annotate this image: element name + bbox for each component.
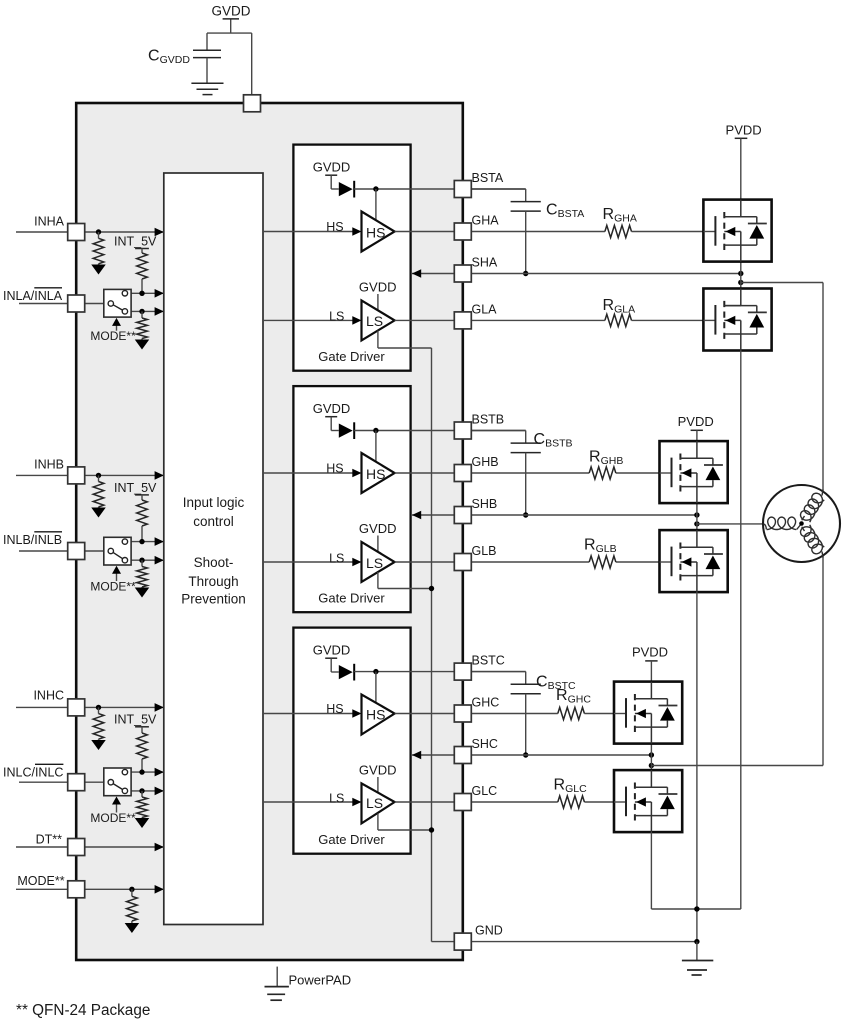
resistor RGLB (589, 556, 616, 568)
pin INLB (68, 543, 85, 560)
pin SHA (454, 265, 471, 282)
node INT_5V (A) (135, 248, 149, 250)
svg-text:HS: HS (366, 466, 385, 482)
svg-text:INLC/INLC: INLC/INLC (3, 766, 63, 780)
svg-text:CBSTA: CBSTA (546, 202, 584, 221)
capacitor CBSTC (525, 672, 527, 685)
wire INLC input stub (19, 781, 68, 783)
wire GLA output (395, 319, 605, 321)
node motor branch B (694, 521, 699, 526)
svg-text:INHB: INHB (34, 458, 64, 472)
pin BSTA (454, 181, 471, 198)
svg-text:Gate Driver: Gate Driver (318, 591, 385, 606)
node BSTA junction (373, 186, 378, 191)
wire SHB to half-bridge (466, 514, 697, 516)
wire BSTC (354, 671, 526, 673)
node SHC cap junction (523, 752, 528, 757)
svg-text:PowerPAD: PowerPAD (289, 973, 352, 988)
svg-text:CGVDD: CGVDD (148, 48, 190, 67)
pin INLC (68, 774, 85, 791)
svg-text:MODE**: MODE** (90, 329, 136, 343)
svg-text:BSTA: BSTA (472, 171, 504, 185)
gate driver block C (293, 628, 410, 854)
svg-text:MODE**: MODE** (17, 874, 64, 888)
pin INHC (68, 699, 85, 716)
svg-text:HS: HS (326, 702, 343, 716)
svg-text:** QFN-24 Package: ** QFN-24 Package (16, 1002, 150, 1019)
pin BSTC (454, 663, 471, 680)
mode mux switch B (104, 537, 131, 565)
svg-text:INT_5V: INT_5V (114, 713, 157, 727)
op-amp buffer HS A (362, 212, 395, 252)
gate driver block A (293, 145, 410, 371)
node BSTB junction (373, 428, 378, 433)
svg-text:Gate Driver: Gate Driver (318, 349, 385, 364)
node LS return B junction (429, 586, 434, 591)
wire LS input A (263, 319, 353, 321)
resistor RGHB (589, 467, 616, 479)
svg-text:BSTB: BSTB (472, 413, 505, 427)
node SHA midpoint (738, 271, 743, 276)
wire INLB pin to mux (85, 550, 104, 552)
node INHC pulldown junction (96, 705, 101, 710)
svg-text:SHC: SHC (472, 737, 498, 751)
wire LS return bus to GND (431, 348, 433, 942)
wire BSTA (354, 188, 526, 190)
diode bootstrap DC (339, 665, 353, 679)
node motor branch A (738, 280, 743, 285)
wire GHC (584, 713, 626, 715)
gate driver block B (293, 386, 410, 612)
wire GHA output (395, 231, 605, 233)
node SHB midpoint (694, 512, 699, 517)
resistor RGHC (558, 707, 585, 719)
pin GLA (454, 312, 471, 329)
wire mux C top output (128, 771, 164, 773)
svg-text:HS: HS (326, 220, 343, 234)
pin GVDD (244, 95, 261, 112)
node GND junction (694, 939, 699, 944)
wire INHB pin to logic (85, 474, 164, 476)
wire GHA (632, 231, 716, 233)
node INT_5V (B) (135, 494, 149, 496)
svg-text:HS: HS (326, 462, 343, 476)
wire mux B bottom output (128, 559, 164, 561)
svg-text:PVDD: PVDD (632, 645, 668, 660)
motor winding C (lower right) (801, 525, 825, 554)
node MODE pulldown junction (129, 887, 134, 892)
wire GLA (632, 319, 716, 321)
capacitor CBSTB (525, 431, 527, 444)
transistor Q5 (power MOSFET) (614, 682, 682, 744)
resistor pulldown mux A (141, 311, 143, 318)
svg-text:INLA/INLA: INLA/INLA (3, 289, 63, 303)
svg-text:MODE**: MODE** (90, 811, 136, 825)
pin GHC (454, 705, 471, 722)
wire LS return A (377, 331, 379, 349)
wire phase B to motor (697, 523, 766, 525)
wire INLA input stub (19, 303, 68, 305)
wire MODE pin to logic (85, 888, 164, 890)
op-amp buffer LS A (362, 300, 395, 340)
svg-text:MODE**: MODE** (90, 580, 136, 594)
svg-text:Through: Through (188, 574, 238, 589)
wire SHB sense (412, 514, 454, 516)
diode bootstrap DA (339, 182, 353, 196)
svg-text:INT_5V: INT_5V (114, 481, 157, 495)
ground (system) (682, 960, 713, 962)
wire mux C bottom output (128, 790, 164, 792)
pin GND (454, 933, 471, 950)
wire GHB output (395, 472, 590, 474)
pin GLB (454, 554, 471, 571)
svg-text:LS: LS (329, 310, 344, 324)
resistor INT_5V pullup A (141, 249, 143, 254)
svg-text:CBSTB: CBSTB (534, 431, 573, 450)
wire HS input A (263, 231, 353, 233)
node GVDD (top supply) (230, 19, 232, 33)
transistor Q1 (power MOSFET) (703, 200, 771, 262)
wire LS return C (377, 814, 379, 831)
wire DT input stub (16, 846, 68, 848)
node INHA pulldown junction (96, 229, 101, 234)
input logic control block (164, 173, 263, 925)
resistor pulldown INHB (98, 475, 100, 481)
pin GLC (454, 794, 471, 811)
IC body U1 (gate driver IC) (76, 103, 463, 960)
wire PVDD to Q5 drain (650, 661, 652, 682)
svg-text:BSTC: BSTC (472, 654, 505, 668)
ground PowerPAD (276, 967, 278, 987)
resistor RGHA (605, 225, 632, 237)
svg-text:GVDD: GVDD (359, 280, 397, 295)
wire INHA input stub (16, 231, 68, 233)
resistor pulldown INHC (98, 707, 100, 713)
wire GHB (616, 472, 672, 474)
motor winding B (left) (764, 524, 767, 529)
svg-text:GVDD: GVDD (359, 521, 397, 536)
svg-text:LS: LS (366, 555, 383, 571)
pin GHA (454, 223, 471, 240)
wire phase C to motor (651, 765, 823, 767)
svg-text:GVDD: GVDD (359, 763, 397, 778)
node motor branch C (649, 763, 654, 768)
resistor pulldown INHA (98, 232, 100, 238)
wire INHC pin to logic (85, 706, 164, 708)
wire BSTC to bootstrap cap (466, 671, 526, 673)
wire INHC input stub (16, 706, 68, 708)
node SHA cap junction (523, 271, 528, 276)
op-amp buffer LS B (362, 542, 395, 582)
resistor RGLA (605, 314, 632, 326)
pin SHB (454, 507, 471, 524)
wire Q4 source to ground (696, 592, 698, 942)
resistor INT_5V pullup B (141, 495, 143, 500)
wire PVDD to Q1 drain (740, 138, 742, 199)
ground (CGVDD) (191, 82, 223, 84)
node motor star point (799, 521, 804, 526)
svg-text:GLC: GLC (472, 784, 498, 798)
transistor Q2 (power MOSFET) (703, 289, 771, 351)
op-amp buffer HS C (362, 695, 395, 735)
wire ground bus (651, 908, 740, 910)
wire GLB output (395, 561, 590, 563)
svg-text:HS: HS (366, 707, 385, 723)
svg-text:SHB: SHB (472, 497, 498, 511)
wire INHB input stub (16, 474, 68, 476)
resistor pulldown mux C (141, 791, 143, 797)
svg-text:RGLA: RGLA (603, 297, 636, 316)
wire SHA sense (412, 273, 454, 275)
wire BSTB to bootstrap cap (466, 430, 526, 432)
svg-text:SHA: SHA (472, 256, 498, 270)
node ground bus junction (694, 906, 699, 911)
resistor RGLC (558, 796, 585, 808)
node INT_5V (C) (135, 726, 149, 728)
node SHC midpoint (649, 752, 654, 757)
wire BSTA to bootstrap cap (466, 188, 526, 190)
wire HS input C (263, 713, 353, 715)
svg-text:Prevention: Prevention (181, 592, 246, 607)
wire mux A top output (128, 292, 164, 294)
motor winding A (upper right) (801, 493, 825, 522)
svg-text:GVDD: GVDD (313, 643, 351, 658)
svg-text:RGHA: RGHA (603, 206, 637, 225)
pin INHA (68, 224, 85, 241)
wire SHC to half-bridge (466, 754, 651, 756)
capacitor CGVDD (193, 49, 221, 51)
wire LS return B (377, 572, 379, 589)
svg-text:GVDD: GVDD (211, 4, 250, 19)
resistor pulldown MODE (131, 889, 133, 896)
svg-text:INT_5V: INT_5V (114, 235, 157, 249)
node INHB pulldown junction (96, 473, 101, 478)
svg-text:RGLC: RGLC (554, 777, 588, 796)
svg-text:PVDD: PVDD (678, 414, 714, 429)
svg-text:LS: LS (366, 795, 383, 811)
svg-text:DT**: DT** (36, 832, 63, 846)
wire GLC output (395, 801, 558, 803)
svg-text:GVDD: GVDD (313, 160, 351, 175)
wire INLA pin to mux (85, 303, 104, 305)
pin MODE (68, 881, 85, 898)
transistor Q6 (power MOSFET) (614, 770, 682, 832)
svg-text:GHA: GHA (472, 214, 500, 228)
svg-text:GVDD: GVDD (313, 401, 351, 416)
mode mux switch C (104, 768, 131, 796)
wire GHC output (395, 713, 558, 715)
op-amp buffer HS B (362, 453, 395, 493)
svg-text:LS: LS (329, 791, 344, 805)
pin DT (68, 839, 85, 856)
diode bootstrap DB (339, 424, 353, 438)
resistor pulldown mux B (141, 560, 143, 566)
wire MODE input stub (16, 888, 68, 890)
wire SHA to half-bridge (466, 273, 741, 275)
wire INLC pin to mux (85, 781, 104, 783)
svg-text:Shoot-: Shoot- (194, 555, 234, 570)
motor M1 (3-phase) (763, 485, 840, 562)
wire mux B top output (128, 541, 164, 543)
transistor Q3 (power MOSFET) (660, 441, 728, 503)
wire GND pin net (466, 941, 697, 943)
svg-text:INLB/INLB: INLB/INLB (3, 533, 62, 547)
svg-text:PVDD: PVDD (726, 123, 762, 138)
wire Q6 source to ground bus (650, 832, 652, 909)
wire DT pin to logic (85, 846, 164, 848)
resistor INT_5V pullup C (141, 727, 143, 733)
wire BSTB (354, 430, 526, 432)
pin INLA (68, 295, 85, 312)
svg-text:INHC: INHC (33, 689, 64, 703)
wire phase A to motor (741, 282, 823, 284)
wire to GND pin (432, 941, 455, 943)
wire GLC (584, 801, 626, 803)
op-amp buffer LS C (362, 783, 395, 823)
wire PVDD to Q3 drain (696, 430, 698, 441)
svg-text:RGHB: RGHB (589, 449, 623, 468)
wire INLB input stub (19, 550, 68, 552)
svg-text:GND: GND (475, 924, 503, 938)
svg-text:GLA: GLA (472, 302, 498, 316)
wire mux A bottom output (128, 310, 164, 312)
wire GVDD to pin and capacitor (207, 32, 252, 34)
svg-text:control: control (193, 514, 234, 529)
wire Q2 source to ground bus (740, 351, 742, 910)
svg-text:GHB: GHB (472, 455, 499, 469)
svg-text:GHC: GHC (472, 696, 500, 710)
wire INHA pin to logic (85, 231, 164, 233)
wire HS input B (263, 472, 353, 474)
pin SHC (454, 747, 471, 764)
pin GHB (454, 465, 471, 482)
node LS return C junction (429, 827, 434, 832)
wire SHC sense (412, 754, 454, 756)
svg-text:INHA: INHA (34, 215, 65, 229)
svg-text:LS: LS (366, 313, 383, 329)
transistor Q4 (power MOSFET) (660, 530, 728, 592)
svg-text:Input logic: Input logic (183, 495, 245, 510)
pin INHB (68, 467, 85, 484)
svg-text:RGLB: RGLB (584, 537, 617, 556)
wire LS input C (263, 801, 353, 803)
svg-text:Gate Driver: Gate Driver (318, 832, 385, 847)
node SHB cap junction (523, 512, 528, 517)
svg-text:HS: HS (366, 225, 385, 241)
capacitor CBSTA (525, 189, 527, 202)
wire LS input B (263, 561, 353, 563)
node BSTC junction (373, 669, 378, 674)
svg-text:GLB: GLB (472, 544, 497, 558)
pin BSTB (454, 422, 471, 439)
svg-text:LS: LS (329, 551, 344, 565)
mode mux switch A (104, 289, 131, 317)
wire GLB (616, 561, 672, 563)
